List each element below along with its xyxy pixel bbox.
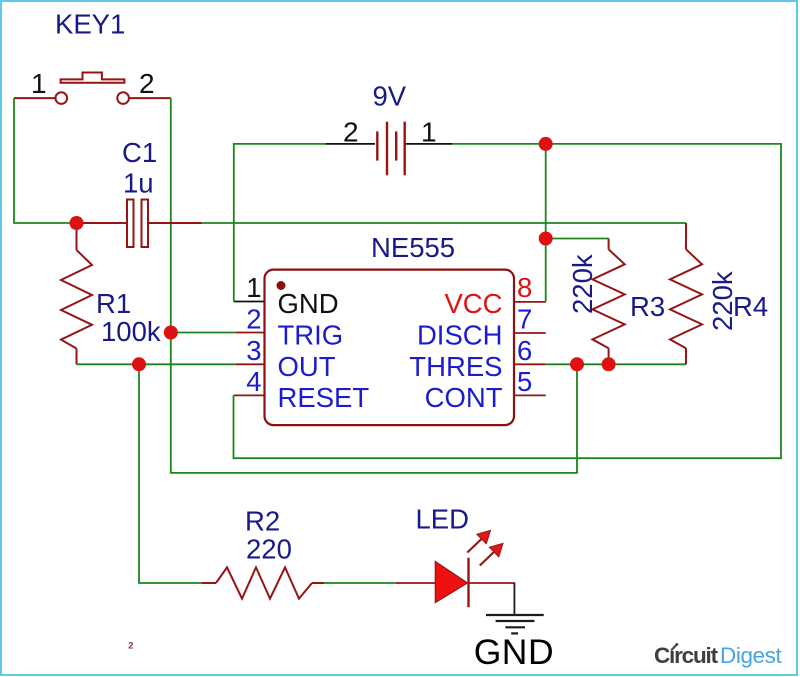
pin 3 stub bbox=[236, 363, 265, 365]
capacitor C1 bbox=[77, 200, 202, 248]
IC U1 NE555 bbox=[265, 270, 515, 426]
svg-text:3: 3 bbox=[246, 335, 261, 366]
svg-text:GND: GND bbox=[278, 288, 339, 319]
svg-text:R4: R4 bbox=[733, 291, 768, 322]
junction C1/R1/KEY1 node bbox=[70, 216, 84, 230]
wire KEY1 pin1 to C1/R1 node bbox=[14, 98, 77, 223]
svg-text:VCC: VCC bbox=[444, 288, 502, 319]
LED D1 bbox=[435, 562, 467, 603]
junction R3 top node bbox=[539, 232, 553, 246]
pin 6 stub bbox=[514, 363, 546, 365]
pin 4 stub bbox=[234, 394, 265, 396]
svg-text:C1: C1 bbox=[122, 137, 157, 168]
svg-text:2: 2 bbox=[139, 68, 155, 99]
battery BAT 9V bbox=[377, 122, 404, 176]
wire R2 to LED bbox=[324, 582, 396, 584]
svg-text:1u: 1u bbox=[123, 168, 154, 199]
LED cathode wire bbox=[469, 582, 516, 584]
svg-text:2: 2 bbox=[128, 640, 133, 651]
wire KEY1 pin2 down to THRES line bbox=[171, 98, 577, 473]
svg-text:7: 7 bbox=[517, 303, 532, 334]
pin 5 stub bbox=[514, 394, 546, 396]
wire C1 right to R4 top bbox=[202, 222, 687, 224]
wire TRIG branch bbox=[171, 332, 236, 334]
junction THRES node B bbox=[602, 357, 616, 371]
svg-text:100k: 100k bbox=[101, 316, 161, 347]
junction TRIG node bbox=[164, 326, 178, 340]
ground symbol bbox=[486, 615, 544, 633]
LED anode wire bbox=[396, 582, 435, 584]
CircuitDigest logo bbox=[654, 643, 783, 668]
svg-text:1: 1 bbox=[246, 272, 261, 303]
resistor R4 bbox=[670, 223, 702, 364]
wire OUT node down to R2 bbox=[139, 364, 202, 583]
battery pin 2 wire bbox=[326, 143, 375, 145]
svg-text:LED: LED bbox=[416, 504, 470, 535]
pin 1 stub (GND, black) bbox=[234, 301, 265, 303]
battery pin 1 wire bbox=[406, 143, 452, 145]
wire VCC node down to pin 8 bbox=[545, 144, 547, 302]
svg-text:R2: R2 bbox=[245, 506, 280, 537]
svg-text:THRES: THRES bbox=[409, 351, 502, 382]
svg-text:1: 1 bbox=[31, 68, 47, 99]
svg-text:6: 6 bbox=[517, 335, 532, 366]
wire R1 bottom / OUT node bbox=[77, 363, 236, 365]
svg-text:KEY1: KEY1 bbox=[55, 9, 125, 40]
svg-text:OUT: OUT bbox=[278, 351, 336, 382]
pin 2 stub bbox=[236, 332, 265, 334]
svg-text:2: 2 bbox=[343, 117, 359, 148]
junction THRES node A bbox=[570, 357, 584, 371]
wire battery pin1 / VCC net top bbox=[234, 144, 782, 458]
svg-text:Cırcuit: Cırcuit bbox=[654, 643, 719, 668]
resistor R1 bbox=[61, 223, 92, 364]
wire THRES line bbox=[546, 363, 686, 365]
svg-text:2: 2 bbox=[246, 303, 261, 334]
svg-text:1: 1 bbox=[421, 117, 437, 148]
pin 7 stub bbox=[514, 332, 546, 334]
svg-text:220k: 220k bbox=[567, 254, 598, 314]
LED light arrow 2 bbox=[480, 543, 503, 565]
wire down to ground bbox=[513, 583, 515, 615]
pin 1 marker dot bbox=[277, 281, 286, 290]
resistor R2 bbox=[202, 567, 324, 598]
svg-text:4: 4 bbox=[246, 366, 261, 397]
svg-text:220: 220 bbox=[246, 534, 292, 565]
LED light arrow 1 bbox=[467, 530, 490, 552]
wire VCC node to R3 top bbox=[546, 238, 609, 240]
svg-text:Digest: Digest bbox=[720, 643, 783, 668]
svg-text:R3: R3 bbox=[630, 291, 665, 322]
svg-text:8: 8 bbox=[517, 272, 532, 303]
svg-text:RESET: RESET bbox=[278, 382, 370, 413]
pin 8 stub bbox=[514, 301, 546, 303]
svg-text:NE555: NE555 bbox=[371, 232, 455, 263]
svg-text:5: 5 bbox=[517, 366, 532, 397]
pushbutton KEY1 bbox=[14, 73, 171, 104]
svg-text:TRIG: TRIG bbox=[278, 319, 344, 350]
svg-text:9V: 9V bbox=[373, 81, 407, 112]
resistor R3 bbox=[593, 239, 625, 365]
svg-text:DISCH: DISCH bbox=[417, 319, 503, 350]
junction VCC top node bbox=[539, 137, 553, 151]
svg-text:CONT: CONT bbox=[425, 382, 503, 413]
svg-text:GND: GND bbox=[474, 632, 554, 672]
junction OUT node bbox=[132, 357, 146, 371]
svg-text:R1: R1 bbox=[96, 288, 131, 319]
wire battery pin2 to IC pin1 (GND net) bbox=[234, 144, 326, 302]
